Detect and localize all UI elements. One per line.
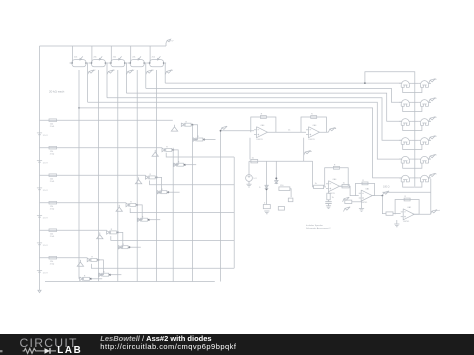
wire mesh rung 2: [150, 181, 235, 185]
wire U4 output junction: [372, 195, 382, 197]
wire mesh vertical A: [172, 148, 174, 282]
wire bottom pair output: [91, 278, 102, 280]
logo resistor and diode glyph: [0, 334, 90, 355]
resistor R16 on reference line: [251, 157, 258, 163]
resistor R13 on U3 output: [342, 182, 349, 188]
wire cluster 3 output: [168, 191, 179, 193]
wire left rail vertical: [39, 46, 41, 288]
svg-text:1.5 V: 1.5 V: [43, 135, 49, 137]
junction cluster 2 B: [184, 164, 186, 166]
voltage source V6 on rail: [37, 270, 48, 274]
voltage source V4 on rail: [37, 215, 48, 219]
wire bus POT3 to speaker row 3: [126, 93, 402, 121]
resistor R2a branch 2: [49, 146, 57, 155]
resistor feedback U1: [260, 114, 266, 119]
wire speaker LS11 return: [403, 182, 415, 187]
speaker LS11: [399, 175, 412, 182]
wire cluster 1 output: [204, 139, 215, 141]
flag cluster 6 reference: [77, 260, 83, 266]
svg-text:2 kΩ: 2 kΩ: [50, 126, 55, 128]
wire divider branch 2: [40, 147, 163, 149]
diode D13 with resistor bottom: [80, 275, 90, 280]
ground below tap A: [264, 211, 269, 214]
junction cluster 5 A: [117, 231, 119, 233]
diode D9 with resistor: [107, 229, 117, 234]
wire U4 noninverting to ground: [361, 201, 363, 208]
diode D8 with resistor: [138, 216, 148, 221]
op-amp U3: [326, 178, 340, 195]
wire cluster 5 output: [130, 246, 141, 248]
wire to source V7: [248, 161, 250, 174]
svg-text:1.5 V: 1.5 V: [43, 273, 49, 275]
wire mesh rung 4: [111, 236, 234, 240]
junction common rail to bus row1: [364, 82, 366, 84]
node flag speaker row 1: [429, 79, 437, 84]
wire rail to POT2 left terminal: [89, 46, 92, 63]
wire between speakers row 3: [412, 120, 419, 122]
wire speaker LS7 return: [403, 144, 415, 149]
resistor R19 box: [278, 207, 284, 211]
resistor R17 after tap B: [279, 185, 290, 191]
wire mesh vertical B: [192, 125, 194, 282]
wire speaker row 6 to flag: [429, 177, 431, 179]
potentiometer POT1: [70, 56, 89, 66]
svg-text:1k: 1k: [343, 182, 345, 184]
junction cluster 3 B: [167, 191, 169, 193]
svg-text:20 kΩ each: 20 kΩ each: [49, 90, 65, 94]
wire cluster 2 A to B: [173, 150, 178, 165]
wire speaker row 6 down to output node: [430, 179, 432, 214]
svg-text:100 Ω: 100 Ω: [383, 186, 390, 189]
node flag POT2 output: [107, 70, 115, 75]
flag cluster 1 reference: [171, 125, 177, 131]
flag cluster 5 reference: [97, 232, 103, 238]
svg-text:LM741: LM741: [309, 139, 316, 141]
wire feedback loop U1: [251, 117, 276, 132]
svg-text:2 kΩ: 2 kΩ: [50, 209, 55, 211]
flag cluster 2 reference: [152, 150, 158, 156]
svg-text:20k: 20k: [93, 56, 96, 58]
wire V7 to ground: [248, 181, 250, 184]
wire top-right common rail: [365, 72, 415, 187]
CircuitLab logo wordmark: [20, 336, 78, 350]
node flag speaker row 5: [429, 155, 437, 160]
wire feedback loop U5: [395, 200, 419, 215]
wire top supply rail: [40, 45, 167, 47]
svg-text:9 V: 9 V: [170, 40, 174, 42]
wire bus wiper1 node to speaker row 6: [79, 108, 402, 178]
resistor R18 to U3: [314, 183, 324, 189]
node flag U1 input: [221, 126, 228, 131]
diode D15: [259, 185, 268, 189]
wire U3 noninverting stub: [328, 192, 330, 194]
wire mesh rung 5: [91, 264, 234, 268]
wire speaker LS2 return: [415, 87, 422, 92]
wire bus POT1 to speaker row 5: [88, 102, 403, 159]
diode D11 with resistor: [87, 257, 97, 262]
junction tap A: [266, 188, 268, 190]
wire cluster 3 A to B: [157, 177, 162, 192]
diode D3 with resistor: [162, 147, 172, 152]
potentiometer POT2: [89, 56, 108, 66]
wire cluster 6 output: [110, 274, 121, 276]
wire speaker LS1 return: [403, 87, 415, 92]
wire U1 output to U2: [276, 131, 306, 133]
wire feedback loop U3: [325, 168, 349, 186]
node flag POT4 output: [146, 70, 154, 75]
svg-text:5 V: 5 V: [253, 178, 257, 180]
flag cluster 4 reference: [116, 205, 122, 211]
resistor R5a branch 5: [49, 229, 57, 238]
wire cluster 6 A to B: [98, 260, 103, 275]
wire mesh rung 3: [130, 208, 234, 212]
svg-text:Includes Speaker: Includes Speaker: [306, 224, 323, 227]
svg-text:LM741: LM741: [361, 202, 368, 204]
wire tap vertical A: [266, 161, 268, 204]
wire reference line: [249, 160, 313, 162]
wire POT4 right terminal down: [145, 63, 147, 88]
wire feedback loop U2: [301, 117, 326, 132]
svg-text:1.5 V: 1.5 V: [43, 245, 49, 247]
wire speaker LS5 return: [403, 125, 415, 130]
wire output link: [382, 191, 430, 193]
diode D4 with resistor: [174, 161, 184, 166]
wire input line to U1: [221, 130, 255, 132]
resistor R6a branch 6: [49, 256, 57, 265]
junction cluster 1 A: [192, 124, 194, 126]
resistor R12 below U3: [327, 193, 334, 200]
svg-text:Schematic Assessment 2: Schematic Assessment 2: [306, 227, 331, 230]
wire bottom return line: [45, 281, 215, 283]
wire POT2 right terminal down: [106, 63, 108, 98]
svg-text:2 kΩ: 2 kΩ: [50, 236, 55, 238]
wire speaker row 5 to flag: [429, 158, 431, 160]
wire speaker LS3 return: [403, 106, 415, 111]
speaker LS10: [418, 156, 431, 163]
wire between speakers row 5: [412, 158, 419, 160]
wire between speakers row 2: [412, 101, 419, 103]
svg-text:2 kΩ: 2 kΩ: [50, 181, 55, 183]
junction bottom pair: [90, 278, 92, 280]
speaker LS12: [418, 175, 431, 182]
resistor feedback U2: [311, 114, 317, 119]
diode D16: [275, 180, 279, 183]
power supply flag V+: [166, 39, 174, 46]
node flag U4 output: [382, 191, 389, 196]
wire speaker LS9 return: [403, 163, 415, 168]
wire speaker LS6 return: [415, 125, 422, 130]
wire speaker LS12 return: [415, 182, 422, 187]
wire U5 plus stub to ground: [396, 220, 398, 224]
node flag speaker row 2: [429, 98, 437, 103]
wire rail to POT4 left terminal: [128, 46, 131, 63]
wire rail to POT3 left terminal: [109, 46, 112, 63]
wire POT2 wiper down: [97, 70, 99, 282]
speaker LS2: [418, 81, 431, 88]
resistor R15 U5 input: [386, 212, 393, 215]
flag cluster 3 reference: [135, 177, 141, 183]
junction U4 out: [382, 195, 384, 197]
node flag POT5 output: [165, 70, 173, 75]
wire POT5 right terminal down: [164, 63, 166, 83]
svg-text:20k: 20k: [113, 56, 116, 58]
wire speaker LS10 return: [415, 163, 422, 168]
op-amp U2: [306, 124, 320, 141]
op-amp U1: [254, 124, 268, 141]
speaker LS4: [418, 100, 431, 107]
wire cluster 4 A to B: [137, 205, 142, 220]
ground below U4: [359, 209, 364, 212]
diode D2 with resistor: [193, 136, 203, 141]
junction cluster 4 A: [136, 204, 138, 206]
wire mesh vertical D: [220, 131, 222, 282]
voltage source V1 on rail: [37, 133, 48, 137]
wire between speakers row 4: [412, 139, 419, 141]
svg-text:1k: 1k: [332, 197, 334, 199]
wire tap vertical B: [275, 161, 277, 184]
wire rail to POT1 left terminal: [70, 46, 73, 63]
svg-text:20k: 20k: [132, 56, 135, 58]
voltage source V3 on rail: [37, 188, 48, 192]
node flag POT1 output: [88, 70, 96, 75]
wire R15 to U5: [393, 213, 401, 215]
op-amp U4: [359, 187, 373, 204]
wire speaker LS4 return: [415, 106, 422, 111]
junction input line: [220, 130, 222, 132]
wire divider branch 6: [40, 257, 88, 259]
node flag reference: [304, 150, 312, 155]
wire POT3 right terminal down: [125, 63, 127, 93]
diode D6 with resistor: [157, 189, 167, 194]
op-amp U5: [401, 206, 415, 223]
wire U5 output: [413, 213, 431, 215]
junction cluster 4 B: [148, 219, 150, 221]
wire bus POT2 to speaker row 4: [107, 98, 402, 141]
node flag speaker row 6: [429, 173, 437, 178]
svg-text:1.5 V: 1.5 V: [43, 218, 49, 220]
wire POT5 wiper down: [156, 70, 158, 282]
wire R14 to U4 noninverting node: [352, 201, 362, 203]
wire U4 output down to U5 input: [382, 196, 386, 214]
diode D1 with resistor: [181, 121, 191, 126]
wire R13 to U4 input: [349, 186, 359, 195]
svg-text:2 kΩ: 2 kΩ: [50, 154, 55, 156]
junction cluster 3 A: [156, 176, 158, 178]
wire feedback loop U4: [356, 183, 375, 195]
wire speaker row 3 to flag: [429, 120, 431, 122]
resistor feedback U3: [333, 164, 339, 169]
junction cluster 2 A: [172, 149, 174, 151]
diode D7 with resistor: [126, 202, 136, 207]
potentiometer POT5: [147, 56, 166, 66]
node flag speaker row 4: [429, 136, 437, 141]
wire cluster 1 A to B: [193, 125, 198, 140]
wire R18 to U3: [324, 186, 326, 188]
svg-text:2 kΩ: 2 kΩ: [50, 264, 55, 266]
svg-text:1k: 1k: [315, 183, 317, 185]
junction tap B: [275, 177, 277, 179]
wire bus POT4 to speaker row 2: [146, 88, 402, 102]
ground flag bottom of left rail: [38, 288, 41, 293]
svg-text:LM741: LM741: [257, 139, 264, 141]
voltage source V7: [246, 175, 258, 182]
resistor R14 U4 input: [345, 200, 352, 203]
junction cluster 6 B: [109, 274, 111, 276]
wire speaker row 2 to flag: [429, 101, 431, 103]
voltage source V2 on rail: [37, 160, 48, 164]
potentiometer POT3: [108, 56, 127, 66]
wire POT3 wiper down: [117, 70, 119, 282]
resistor R1a branch 1: [49, 119, 57, 128]
resistor feedback U5: [404, 196, 410, 201]
wire U2 noninverting down to reference line: [303, 138, 305, 162]
svg-text:20k: 20k: [74, 56, 77, 58]
capacitor C2 below U3: [325, 202, 331, 204]
resistor R4a branch 4: [49, 201, 57, 210]
node flag POT3 output: [126, 70, 134, 75]
wire POT1 right terminal down: [87, 63, 89, 102]
svg-text:1.5 V: 1.5 V: [43, 163, 49, 165]
svg-text:out: out: [437, 209, 440, 212]
diode D12 with resistor: [99, 271, 109, 276]
wire divider branch 1: [40, 119, 173, 121]
wire R12 to C2: [328, 200, 330, 202]
potentiometer POT4: [128, 56, 147, 66]
label annotation text: [306, 224, 331, 230]
wire POT1 wiper down: [78, 70, 80, 279]
speaker LS1: [399, 81, 412, 88]
svg-text:LM741: LM741: [403, 221, 410, 223]
ground below U5: [394, 224, 399, 227]
wire between speakers row 6: [412, 177, 419, 179]
wire U3 output: [340, 185, 343, 187]
junction cluster 1 B: [203, 139, 205, 141]
diode D5 with resistor: [145, 174, 155, 179]
junction cluster 6 A: [97, 259, 99, 261]
wire between speakers row 1: [412, 82, 419, 84]
resistor feedback U4: [362, 180, 368, 185]
node flag U4 lower reference: [344, 207, 351, 212]
speaker LS3: [399, 100, 412, 107]
junction wiper1 bus: [78, 107, 80, 109]
node flag speaker row 3: [429, 117, 437, 122]
diode D10 with resistor: [118, 244, 128, 249]
wire mesh vertical E: [233, 157, 235, 268]
wire POT4 wiper down: [136, 70, 138, 282]
plot title and url: [100, 335, 236, 352]
wire bus POT5 to speaker row 1: [165, 82, 402, 84]
speaker LS5: [399, 119, 412, 126]
svg-text:1.5 V: 1.5 V: [43, 190, 49, 192]
wire divider branch 4: [40, 202, 127, 204]
wire rail to POT5 left terminal: [148, 46, 151, 63]
wire cluster 5 A to B: [118, 232, 123, 247]
wire reference line to U3 input: [313, 161, 314, 187]
junction cluster 5 B: [129, 246, 131, 248]
wire mesh rung 1: [166, 153, 234, 157]
resistor R3a branch 3: [49, 174, 57, 183]
wire speaker row 1 to flag: [429, 82, 431, 84]
svg-text:20k: 20k: [152, 56, 155, 58]
wire divider branch 5: [40, 229, 107, 231]
wire U2 output stub: [326, 131, 328, 133]
ground below U3: [326, 206, 331, 209]
logo LAB text: [57, 345, 82, 355]
node flag U2 output: [328, 127, 336, 132]
wire U1 noninverting input down: [249, 138, 251, 160]
footer bar: [0, 334, 474, 355]
wire R17 down: [290, 189, 291, 197]
node flag U4 noninverting source: [343, 197, 350, 202]
wire cluster 2 output: [185, 164, 196, 166]
speaker LS8: [418, 138, 431, 145]
speaker LS7: [399, 138, 412, 145]
voltage source V5 on rail: [37, 243, 48, 247]
zener D17 box: [263, 202, 270, 208]
ground below V7: [246, 184, 251, 187]
wire C2 to ground: [328, 204, 330, 206]
wire speaker LS8 return: [415, 144, 422, 149]
speaker LS6: [418, 119, 431, 126]
wire cluster 4 output: [149, 219, 160, 221]
node flag U5 output: [430, 209, 440, 214]
ground box below R17: [288, 198, 293, 202]
wire speaker row 4 to flag: [429, 139, 431, 141]
wire divider branch 3: [40, 174, 146, 176]
speaker LS9: [399, 156, 412, 163]
